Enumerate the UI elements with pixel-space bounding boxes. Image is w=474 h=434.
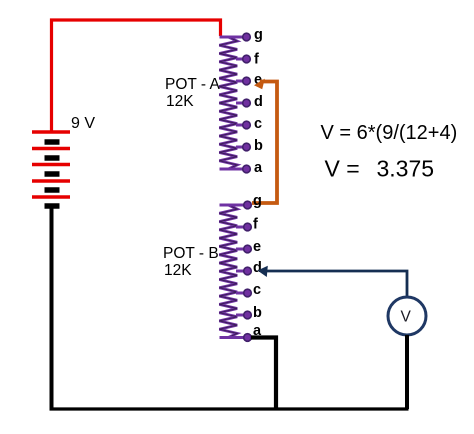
arrowhead navy at tap d (258, 266, 268, 277)
arrowhead orange at tap e (254, 79, 265, 90)
svg-text:b: b (253, 305, 262, 321)
potentiometer POT-B zigzag body (219, 205, 237, 338)
potentiometer POT-A zigzag body (219, 37, 237, 169)
wire orange: POT-A tap e to POT-B top g (252, 82, 277, 204)
POT-A terminal bar g (top) (220, 36, 248, 39)
svg-text:V = 6*(9/(12+4): V = 6*(9/(12+4) (321, 122, 458, 144)
svg-text:3.375: 3.375 (377, 156, 435, 182)
POT-B zigzag dark core (219, 205, 237, 338)
POT-B tap letters g f e d c b a (253, 193, 262, 339)
wire navy: POT-B tap d to voltmeter (262, 271, 407, 297)
POT-B tap dots g f e d c b a (244, 201, 252, 341)
svg-text:e: e (253, 239, 261, 255)
svg-text:9 V: 9 V (71, 115, 95, 132)
POT-A zigzag dark core (219, 37, 237, 169)
svg-text:12K: 12K (164, 262, 192, 279)
POT-A tap stubs f e d c b (236, 59, 247, 147)
svg-text:POT - A: POT - A (165, 76, 221, 93)
wire black: POT-B terminal a to bottom rail (251, 338, 276, 410)
svg-text:g: g (253, 193, 262, 209)
svg-text:f: f (254, 52, 259, 68)
battery B1 short black plates (45, 142, 60, 206)
wire black: bottom rail (50, 407, 409, 410)
svg-text:d: d (253, 260, 262, 276)
svg-text:f: f (253, 217, 258, 233)
svg-text:c: c (253, 282, 261, 298)
wire red: battery + to top of POT-A (52, 20, 221, 133)
svg-text:V: V (401, 309, 412, 326)
svg-text:g: g (254, 27, 263, 43)
POT-B terminal bar a (bottom) (220, 336, 248, 339)
battery B1 (9V) long red plates (32, 132, 70, 197)
voltmeter V1 circle (388, 297, 426, 335)
POT-A tap dots g f e d c b a (243, 33, 251, 173)
svg-text:a: a (254, 160, 263, 176)
POT-B tap stubs f e d c b (236, 227, 247, 315)
POT-B terminal bar g (top) (220, 204, 248, 207)
svg-text:V =: V = (325, 156, 360, 182)
svg-text:12K: 12K (166, 93, 194, 110)
svg-text:d: d (254, 94, 263, 110)
POT-A terminal bar a (bottom) (220, 168, 248, 171)
wire black: battery - down left side to bottom rail (50, 206, 54, 410)
wire black: voltmeter bottom to bottom rail (405, 335, 409, 409)
svg-text:c: c (254, 116, 262, 132)
svg-text:POT - B: POT - B (163, 245, 219, 262)
POT-A tap letters g f e d c b a (254, 27, 263, 176)
svg-text:b: b (254, 138, 263, 154)
